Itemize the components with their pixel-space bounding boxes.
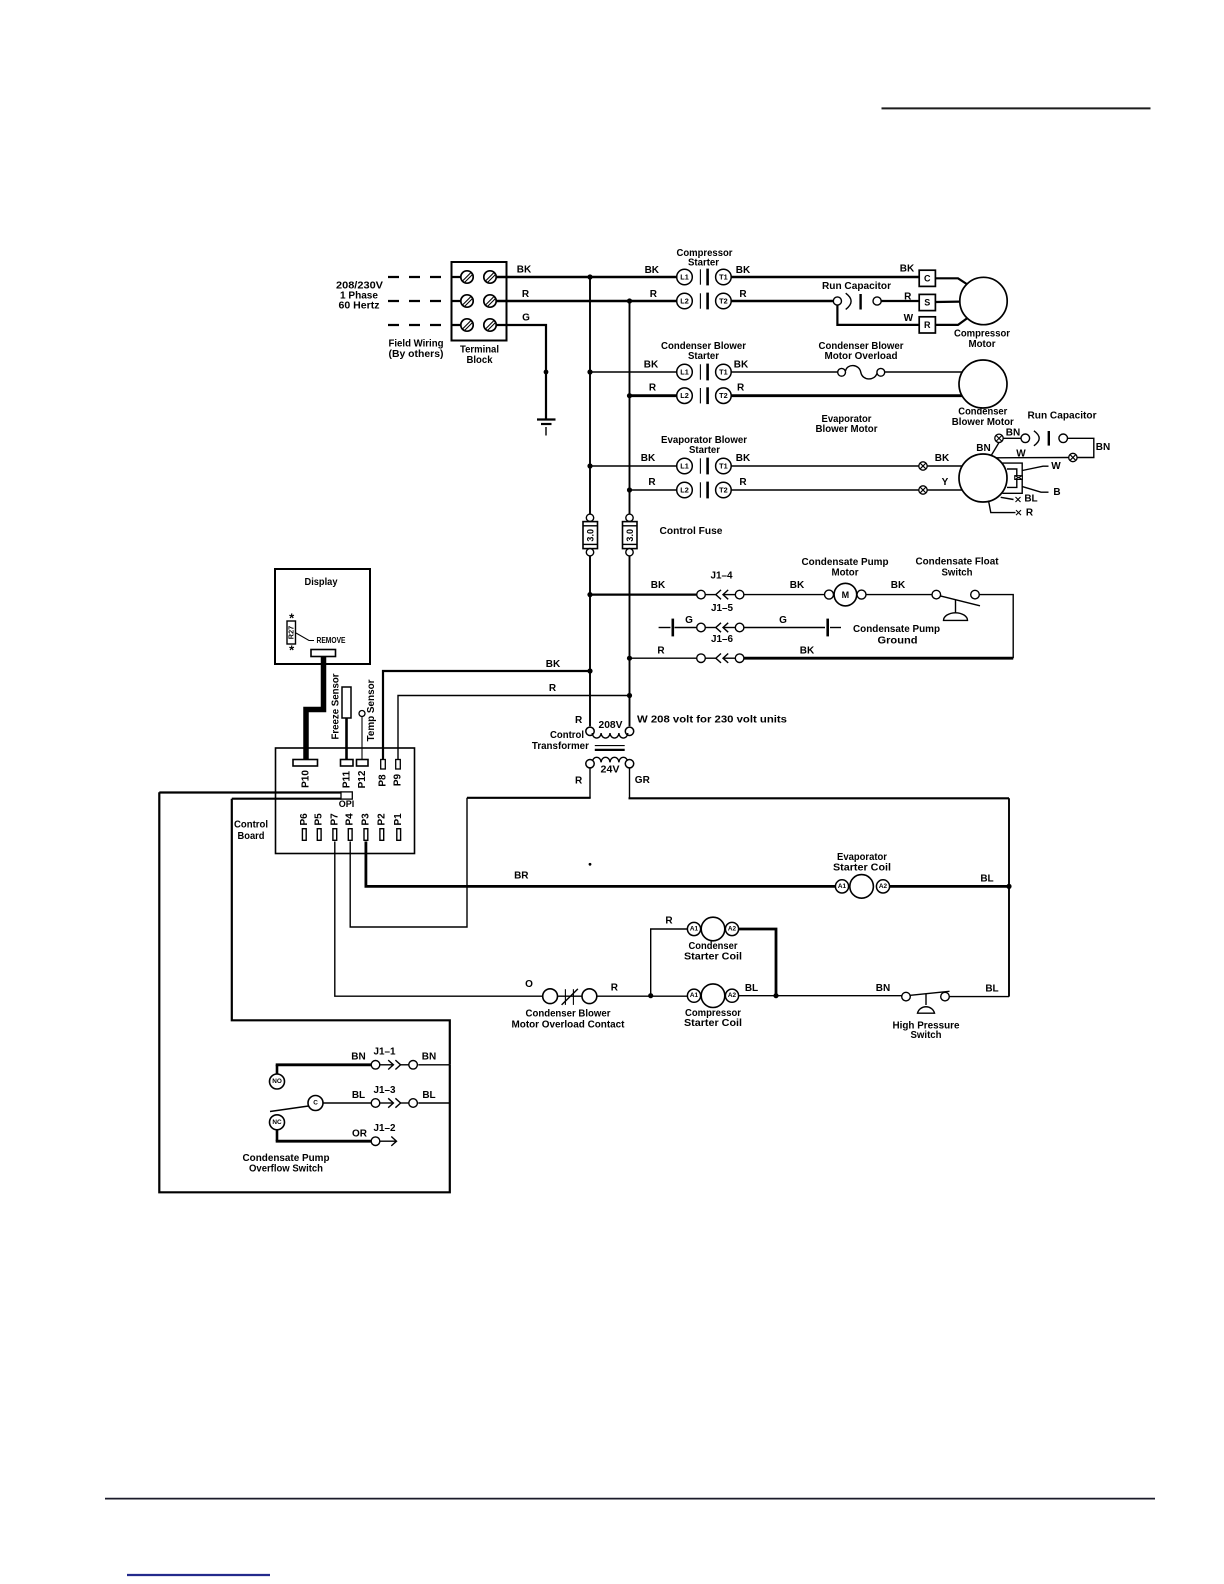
connector J1-4: [697, 590, 744, 599]
field wiring dashed line R: [388, 300, 461, 302]
svg-text:BL: BL: [980, 874, 993, 885]
svg-text:J1–1: J1–1: [374, 1047, 396, 1058]
svg-text:J1–3: J1–3: [374, 1085, 396, 1096]
svg-text:GR: GR: [635, 775, 651, 786]
svg-text:BK: BK: [641, 453, 656, 464]
svg-text:Control: Control: [550, 730, 584, 741]
svg-text:G: G: [522, 313, 530, 324]
svg-text:C: C: [924, 273, 931, 283]
svg-text:A2: A2: [728, 992, 737, 999]
connector bracket outer evap motor: [1002, 463, 1022, 493]
splice W wire: [1069, 453, 1077, 461]
svg-text:P4: P4: [345, 813, 356, 826]
label REMOVE pointer: [296, 633, 346, 645]
svg-text:Condensate Float: Condensate Float: [916, 557, 1000, 568]
wire bus1 to condenser L1: [590, 371, 677, 373]
ground symbol earth: [537, 420, 556, 436]
svg-text:Condenser: Condenser: [689, 941, 738, 952]
svg-text:Motor: Motor: [832, 568, 859, 579]
wire OR NC to J1-2: [276, 1140, 372, 1143]
connector P4: [348, 829, 352, 841]
svg-text:BK: BK: [736, 265, 751, 276]
svg-text:Blower Motor: Blower Motor: [816, 424, 878, 435]
svg-text:Switch: Switch: [942, 568, 973, 579]
wire overload contact to compressor coil: [597, 995, 688, 997]
contact condenser blower motor overload: [543, 989, 597, 1005]
label High Pressure Switch: [893, 1020, 960, 1041]
node BK bus1 junction lower: [587, 668, 592, 673]
motor evaporator blower motor: [959, 454, 1007, 502]
svg-text:Field Wiring: Field Wiring: [389, 339, 444, 350]
svg-text:BL: BL: [985, 984, 998, 995]
wire J1-3 to right vertical: [418, 1102, 450, 1104]
svg-text:W: W: [904, 313, 914, 324]
wire R capacitor to S terminal: [881, 300, 920, 302]
svg-text:BL: BL: [1024, 494, 1037, 505]
svg-text:BN: BN: [876, 983, 890, 994]
svg-text:Starter Coil: Starter Coil: [684, 1018, 742, 1029]
label Compressor Starter Coil: [684, 1008, 742, 1029]
svg-text:R: R: [575, 715, 583, 726]
svg-text:T2: T2: [719, 391, 728, 400]
svg-text:P10: P10: [300, 770, 311, 788]
wire bus1 BK vertical lower: [589, 556, 591, 726]
connector P3: [364, 829, 368, 841]
node bus1 evaporator junction: [587, 463, 592, 468]
connector J1-6: [697, 654, 744, 663]
svg-text:REMOVE: REMOVE: [317, 636, 347, 645]
stray dot: [589, 863, 592, 866]
svg-text:T2: T2: [719, 297, 728, 306]
wire BK from terminal block: [496, 276, 677, 279]
svg-text:Motor: Motor: [969, 339, 996, 350]
terminal C: [919, 270, 935, 286]
sensor freeze sensor body: [342, 687, 351, 718]
connector P2: [380, 829, 384, 841]
svg-text:W: W: [1016, 449, 1026, 460]
svg-text:B: B: [1053, 487, 1060, 498]
svg-text:Condenser Blower: Condenser Blower: [819, 341, 904, 352]
svg-text:BK: BK: [651, 580, 666, 591]
connector bracket inner evap motor: [1007, 469, 1017, 487]
svg-text:R: R: [549, 683, 557, 694]
node R bus2 junction lower: [627, 693, 632, 698]
wire R T2 to run capacitor: [731, 300, 833, 303]
field wiring dashed line G: [388, 324, 461, 326]
svg-text:R27: R27: [287, 626, 296, 639]
svg-text:Block: Block: [467, 355, 493, 366]
node bus1 condenser junction: [587, 369, 592, 374]
connector P5: [317, 829, 321, 841]
svg-text:BK: BK: [644, 360, 659, 371]
svg-text:BL: BL: [422, 1090, 435, 1101]
svg-text:P5: P5: [314, 813, 325, 826]
terminal block TB1: [452, 262, 507, 341]
svg-text:Board: Board: [238, 831, 265, 842]
transformer T1 primary 208V: [586, 720, 634, 738]
node bus2 J1-6 junction: [627, 656, 632, 661]
connector P8: [381, 760, 386, 770]
wire freeze sensor lead: [345, 718, 348, 760]
label Terminal Block: [460, 345, 499, 367]
svg-text:Motor Overload: Motor Overload: [825, 351, 898, 362]
svg-text:BN: BN: [976, 443, 990, 454]
svg-text:J1–5: J1–5: [711, 603, 733, 614]
splice x BL: [1016, 497, 1021, 502]
svg-text:Condensate Pump: Condensate Pump: [243, 1153, 330, 1164]
svg-text:L1: L1: [680, 368, 689, 377]
svg-text:P12: P12: [357, 770, 368, 788]
display module box: [275, 569, 370, 664]
top horizontal rule: [882, 107, 1151, 109]
wire 24V R down: [589, 768, 591, 798]
wire overload to condenser motor: [885, 371, 962, 373]
wire R from terminal block: [496, 300, 677, 303]
svg-text:J1–6: J1–6: [711, 634, 733, 645]
wire bus2 R vertical upper: [629, 301, 631, 514]
wire R to compressor motor: [935, 318, 967, 325]
wire J1-5 to right ground: [744, 627, 825, 629]
svg-text:Condenser Blower: Condenser Blower: [526, 1009, 611, 1020]
label Condenser Starter Coil: [684, 941, 742, 963]
wire display ribbon cable: [306, 657, 324, 760]
wire condenser T1 to overload: [731, 371, 838, 373]
wire bus2 to condenser L2: [630, 394, 678, 397]
terminal R: [919, 317, 935, 333]
bottom horizontal rule: [105, 1498, 1155, 1500]
svg-text:Starter: Starter: [688, 258, 719, 269]
wire 24V GR down: [629, 768, 631, 798]
motor condenser blower motor: [959, 360, 1007, 408]
label Evaporator Starter Coil: [833, 852, 891, 874]
wire R loop to P4: [350, 798, 467, 927]
svg-text:R: R: [924, 320, 931, 330]
svg-text:BK: BK: [736, 453, 751, 464]
svg-text:BK: BK: [800, 646, 815, 657]
wire bus1 to J1-4: [590, 593, 697, 595]
control board box: [276, 748, 415, 854]
svg-text:R: R: [1026, 508, 1034, 519]
svg-text:P9: P9: [393, 773, 404, 786]
svg-text:BK: BK: [517, 265, 532, 276]
svg-text:P7: P7: [329, 813, 340, 826]
footer blue link line: [127, 1574, 270, 1576]
svg-text:L1: L1: [680, 462, 689, 471]
svg-text:208V: 208V: [599, 720, 623, 731]
svg-text:Evaporator: Evaporator: [837, 852, 887, 863]
motor compressor motor: [960, 277, 1007, 324]
wire OPI outer from left loop: [159, 791, 341, 793]
svg-text:BN: BN: [1096, 442, 1110, 453]
field wiring dashed line BK: [388, 276, 461, 278]
splice BK wire: [919, 462, 927, 470]
node branch right junction: [773, 993, 778, 998]
node bus2 evaporator junction: [627, 487, 632, 492]
svg-text:P11: P11: [342, 770, 353, 788]
label Compressor Starter: [677, 248, 733, 269]
wire R lead from evap motor: [989, 501, 1016, 513]
label Evaporator Blower Motor: [816, 414, 878, 435]
svg-text:L2: L2: [680, 486, 689, 495]
wire evap coil to right bus BL: [890, 885, 1009, 888]
label Control Transformer: [532, 730, 589, 752]
wire OPI inner from inner loop: [232, 798, 342, 800]
wire W splice to evap motor: [996, 457, 1069, 459]
wire left inner loop: [232, 799, 450, 1065]
svg-text:BK: BK: [900, 264, 915, 275]
svg-text:BK: BK: [891, 580, 906, 591]
wire 24V R horizontal: [467, 797, 591, 799]
svg-text:R: R: [657, 646, 665, 657]
wire C to compressor motor: [935, 278, 967, 284]
label Evaporator Blower Starter: [661, 435, 747, 456]
svg-text:T1: T1: [719, 273, 728, 282]
wire run capacitor to W corner: [1068, 438, 1094, 457]
svg-text:24V: 24V: [601, 764, 620, 775]
svg-text:BN: BN: [351, 1052, 365, 1063]
svg-text:Starter: Starter: [689, 445, 720, 456]
wire overflow right vertical: [449, 1065, 451, 1103]
svg-text:Ground: Ground: [878, 635, 918, 646]
svg-text:BK: BK: [935, 453, 950, 464]
label Condenser Blower Motor Overload: [819, 341, 904, 362]
label Condensate Pump Motor: [802, 557, 889, 578]
label Field Wiring (By others): [389, 339, 444, 361]
wire BK from P8 to bus1: [383, 671, 590, 760]
contactor condenser starter L2-T2: [677, 387, 732, 404]
splice BN wire: [995, 434, 1003, 442]
svg-text:BK: BK: [645, 265, 660, 276]
label Condenser Blower Starter: [661, 341, 746, 362]
node BK bus junction: [587, 274, 592, 279]
svg-text:Compressor: Compressor: [954, 329, 1010, 340]
svg-text:Temp Sensor: Temp Sensor: [366, 679, 377, 741]
svg-text:BN: BN: [422, 1052, 436, 1063]
node R bus junction: [627, 298, 632, 303]
resistor R27: [287, 611, 296, 658]
wire W from capacitor to R terminal: [837, 305, 920, 325]
svg-text:P2: P2: [376, 813, 387, 826]
label Condensate Pump Ground: [853, 624, 940, 646]
label 208/230V 1 Phase 60 Hertz: [336, 281, 383, 312]
motor condensate pump M: [825, 583, 867, 606]
svg-text:Run Capacitor: Run Capacitor: [1028, 411, 1097, 422]
svg-text:BL: BL: [352, 1090, 365, 1101]
svg-text:C: C: [313, 1100, 318, 1107]
fuse F1 3.0: [583, 514, 598, 556]
svg-text:A1: A1: [690, 992, 699, 999]
switch contact NC: [270, 1115, 285, 1141]
wire condenser T2 to motor: [731, 394, 962, 397]
svg-text:BR: BR: [514, 871, 529, 882]
svg-text:OPI: OPI: [339, 799, 355, 809]
svg-text:J1–4: J1–4: [711, 571, 733, 582]
svg-text:L2: L2: [680, 391, 689, 400]
wire J1-6 to float loop: [744, 657, 1013, 660]
connector display header: [311, 650, 336, 657]
ground symbol J1-5 left: [659, 619, 673, 637]
svg-text:BL: BL: [745, 983, 758, 994]
label Condensate Float Switch: [916, 557, 1000, 579]
svg-text:W: W: [1051, 461, 1061, 472]
svg-text:R: R: [648, 477, 656, 488]
label Condenser Blower Motor Overload Contact: [512, 1009, 626, 1031]
connector J1-1: [371, 1060, 417, 1069]
svg-text:BN: BN: [1006, 427, 1020, 438]
svg-text:Condensate Pump: Condensate Pump: [853, 624, 940, 635]
connector P10: [293, 760, 318, 767]
coil evaporator starter A1-A2: [835, 875, 889, 899]
node G junction: [544, 370, 549, 375]
wire pump motor to float switch: [866, 594, 932, 596]
svg-text:Run Capacitor: Run Capacitor: [822, 281, 891, 292]
svg-text:T1: T1: [719, 368, 728, 377]
wire BL C to J1-3: [323, 1102, 372, 1104]
svg-text:R: R: [522, 289, 530, 300]
wire P7 to overload contact: [335, 842, 543, 997]
svg-text:R: R: [649, 383, 657, 394]
wire 24V GR to right bus: [629, 797, 1010, 799]
svg-text:T2: T2: [719, 486, 728, 495]
wire bus2 to evaporator L2: [630, 489, 678, 491]
svg-text:L2: L2: [680, 297, 689, 306]
wire right bus vertical: [1008, 798, 1010, 996]
wire condenser coil branch left: [651, 929, 688, 996]
svg-text:3.0: 3.0: [586, 529, 596, 542]
wire bus2 to J1-6: [630, 657, 697, 659]
transformer T1 secondary 24V: [586, 757, 634, 775]
coil condenser starter A1-A2: [687, 917, 738, 941]
svg-text:O: O: [525, 979, 533, 990]
connector J1-3: [371, 1098, 417, 1107]
wire bus1 BK vertical upper: [589, 277, 591, 514]
contactor condenser starter L1-T1: [677, 364, 732, 381]
terminal S: [919, 294, 935, 310]
coil compressor starter A1-A2: [687, 984, 738, 1008]
wire W lead from bracket: [1022, 466, 1048, 470]
wire J1-4 to pump motor: [744, 594, 825, 596]
wire ground to J1-5: [675, 627, 697, 629]
svg-text:OR: OR: [352, 1129, 368, 1140]
svg-text:A1: A1: [690, 926, 699, 933]
wire G from terminal block: [496, 325, 546, 419]
svg-text:Display: Display: [305, 577, 338, 588]
svg-text:P8: P8: [378, 774, 389, 787]
svg-text:Starter Coil: Starter Coil: [833, 862, 891, 873]
svg-text:R: R: [665, 916, 673, 927]
svg-text:J1–2: J1–2: [374, 1123, 396, 1134]
wire evaporator T1 to motor: [731, 465, 962, 467]
switch contact C: [270, 1096, 323, 1112]
node BL bus junction: [1006, 884, 1011, 889]
connector OPI: [341, 792, 352, 799]
wire condenser coil branch right: [739, 929, 776, 996]
splice x R: [1016, 510, 1021, 515]
ground symbol J1-5 right: [828, 619, 841, 637]
svg-text:Starter: Starter: [688, 351, 719, 362]
svg-text:R: R: [575, 775, 583, 786]
svg-text:R: R: [611, 983, 619, 994]
overload condenser blower motor overload: [838, 366, 885, 379]
svg-text:P1: P1: [393, 813, 404, 826]
svg-text:R: R: [904, 292, 912, 303]
wire B lead from bracket: [1022, 487, 1048, 493]
wire J1-1 to right vertical: [418, 1064, 450, 1066]
svg-text:(By others): (By others): [389, 349, 444, 360]
wire R from P9 to bus2: [398, 696, 630, 760]
wire S to compressor motor: [935, 301, 960, 304]
svg-text:L1: L1: [680, 273, 689, 282]
svg-text:Starter Coil: Starter Coil: [684, 952, 742, 963]
wire evaporator T2 to motor: [731, 489, 962, 491]
capacitor run capacitor compressor: [833, 293, 881, 309]
connector J1-5: [697, 623, 744, 632]
node compressor coil junction: [648, 993, 653, 998]
connector P9: [396, 760, 401, 770]
wire bus1 to evaporator L1: [590, 465, 677, 467]
label Condenser Blower Motor: [952, 407, 1014, 428]
connector P12: [357, 760, 369, 767]
svg-text:BK: BK: [546, 659, 561, 670]
label Condensate Pump Overflow Switch: [243, 1153, 330, 1175]
svg-text:T1: T1: [719, 462, 728, 471]
capacitor run capacitor evaporator: [1021, 431, 1067, 446]
svg-text:Control Fuse: Control Fuse: [660, 526, 723, 537]
wire left outer loop: [159, 792, 450, 1192]
switch high pressure: [902, 991, 950, 1013]
wire compressor coil to high pressure switch: [739, 995, 902, 997]
connector P1: [397, 829, 401, 841]
svg-text:P3: P3: [360, 813, 371, 826]
svg-text:Terminal: Terminal: [460, 345, 499, 356]
svg-text:R: R: [737, 383, 745, 394]
wire BN NO to J1-1: [276, 1063, 372, 1066]
connector plug box: [1015, 476, 1023, 480]
svg-text:Y: Y: [942, 477, 949, 488]
svg-text:A2: A2: [728, 926, 737, 933]
svg-text:60 Hertz: 60 Hertz: [339, 301, 380, 312]
svg-text:R: R: [739, 289, 747, 300]
wire bus2 R vertical lower: [629, 556, 631, 726]
svg-text:Transformer: Transformer: [532, 741, 589, 752]
svg-text:A1: A1: [838, 883, 847, 890]
node bus2 condenser junction: [627, 393, 632, 398]
wire high pressure switch to right bus: [949, 996, 1009, 998]
svg-text:NC: NC: [272, 1119, 282, 1126]
wire BL lead from evap motor: [1001, 497, 1014, 499]
contactor evaporator starter L1-T1: [677, 458, 732, 475]
wire float switch loop right: [979, 595, 1013, 659]
wire BN from evap motor top: [992, 443, 1000, 456]
svg-text:NO: NO: [272, 1078, 282, 1085]
wire temp sensor lead: [361, 717, 363, 760]
connector J1-2: [371, 1137, 396, 1146]
svg-text:Motor Overload Contact: Motor Overload Contact: [512, 1020, 626, 1031]
connector P7: [333, 829, 337, 841]
contactor compressor starter L2-T2: [677, 293, 732, 310]
label Control Board: [234, 820, 268, 843]
switch contact NO: [270, 1065, 285, 1089]
wire BR from P3 to evap coil: [366, 842, 836, 887]
contactor compressor starter L1-T1: [677, 269, 732, 286]
transformer core: [595, 746, 625, 750]
connector P6: [302, 829, 306, 841]
svg-text:Switch: Switch: [911, 1030, 942, 1041]
svg-text:M: M: [842, 590, 850, 600]
contactor evaporator starter L2-T2: [677, 482, 732, 499]
sensor temp sensor: [359, 711, 365, 717]
svg-text:G: G: [779, 615, 787, 626]
